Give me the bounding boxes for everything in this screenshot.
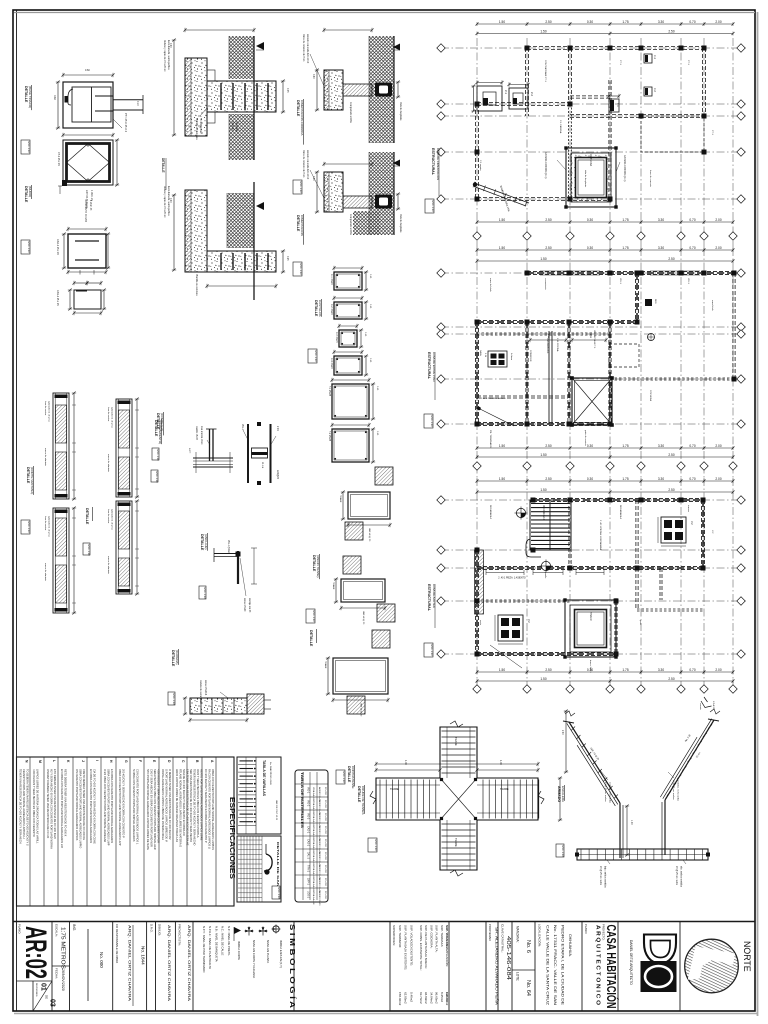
svg-text:aplanado int. de yeso: aplanado int. de yeso — [111, 509, 114, 531]
upper floor window pane symbol left — [498, 615, 523, 641]
svg-text:C-4 15x20: C-4 15x20 — [330, 358, 332, 369]
svg-text:2 #4: 2 #4 — [276, 426, 278, 431]
ground floor diagonal leader — [478, 408, 514, 426]
svg-text:N.P.A.Z.: NIVEL DE PLANTA ALTA: N.P.A.Z.: NIVEL DE PLANTA ALTA — [208, 926, 212, 969]
svg-text:NIVEL EN PLANTA: NIVEL EN PLANTA — [266, 940, 270, 963]
svg-text:armado con malla 6x6-10/10: armado con malla 6x6-10/10 — [306, 34, 309, 64]
svg-text:EN OBRA CON CEMENTO PORTLAND N: EN OBRA CON CEMENTO PORTLAND NORMAL AGRE… — [110, 769, 114, 843]
section rect T-1 25x35 — [332, 384, 369, 419]
svg-text:0.60: 0.60 — [85, 69, 90, 72]
svg-text:TABLA DE VARILLAS: TABLA DE VARILLAS — [262, 760, 266, 796]
ground floor interior walls — [525, 322, 527, 424]
svg-text:VIG-1: VIG-1 — [307, 787, 310, 794]
svg-text:2.00: 2.00 — [715, 668, 721, 672]
ground floor circle symbol — [648, 334, 655, 341]
dimension line row — [477, 447, 733, 449]
foundation footing detail Z-2 — [509, 88, 528, 109]
svg-text:CON CEMENTO PORTLAND NORMAL AG: CON CEMENTO PORTLAND NORMAL AGREGADOS LI… — [136, 769, 140, 845]
svg-text:ESC 1:20: ESC 1:20 — [374, 840, 378, 852]
ground floor window lines top wall — [540, 270, 600, 272]
svg-text:N.C.: NIVEL DE CALLE: N.C.: NIVEL DE CALLE — [221, 926, 225, 956]
svg-text:FC=200: FC=200 — [324, 813, 326, 822]
svg-text:C-1 15x20: C-1 15x20 — [330, 274, 332, 285]
dimension line row — [477, 23, 733, 25]
svg-text:muro de block: muro de block — [489, 278, 492, 293]
svg-text:3.30: 3.30 — [658, 477, 664, 481]
svg-text:RECAMARA 2: RECAMARA 2 — [542, 505, 545, 521]
svg-text:RECAMARA 2: RECAMARA 2 — [489, 505, 492, 520]
stair ramp diagonal bars — [665, 720, 714, 800]
foundation plan left grid diamonds — [437, 44, 445, 52]
svg-text:Plantilla de concreto: Plantilla de concreto — [195, 118, 198, 140]
svg-text:NCIA DE FC=200 KG/CM2 Y SERA H: NCIA DE FC=200 KG/CM2 Y SERA HECHO EN OB… — [182, 769, 186, 836]
DO logo letter D outline — [644, 935, 676, 964]
svg-text:cerramiento: cerramiento — [544, 278, 547, 290]
svg-text:2.00: 2.00 — [715, 218, 721, 222]
svg-text:COCHERA: COCHERA — [649, 390, 652, 401]
svg-text:A R Q U I T E C T O N I C O: A R Q U I T E C T O N I C O — [595, 925, 601, 1005]
stair ramp diagonal bars — [569, 722, 620, 803]
svg-text:alto, ambos sentidos: alto, ambos sentidos — [680, 866, 683, 888]
window section strip — [53, 393, 69, 499]
svg-text:armado con malla 6x6-10/10: armado con malla 6x6-10/10 — [306, 150, 309, 180]
svg-text:0.40: 0.40 — [312, 176, 314, 181]
dala section T - footing — [324, 70, 343, 110]
upper floor column squares — [531, 498, 536, 503]
section rect C-4 15x20 — [334, 356, 362, 375]
svg-text:CONCRETO FC=200: CONCRETO FC=200 — [84, 200, 86, 223]
detail column H with mid beam — [247, 424, 249, 483]
svg-text:No. 17311 FRACC. VALLE DE SAN: No. 17311 FRACC. VALLE DE SAN — [553, 925, 557, 1005]
upper floor interior dim ticks — [486, 572, 524, 574]
svg-text:1.75: 1.75 — [622, 20, 628, 24]
svg-text:DETALLE: DETALLE — [154, 420, 158, 437]
svg-text:1.50: 1.50 — [540, 29, 546, 33]
svg-text:2.50: 2.50 — [668, 677, 674, 681]
svg-text:VAR #4 @ 20: VAR #4 @ 20 — [368, 528, 371, 542]
cross beam center X and corner bars — [440, 778, 477, 820]
svg-text:TO DEBERA TENER UNA RESISTENCI: TO DEBERA TENER UNA RESISTENCIA DE FC=20… — [26, 769, 30, 846]
svg-text:DAL-1: DAL-1 — [307, 852, 310, 859]
svg-text:DE: DE — [45, 995, 49, 999]
upper floor interior walls — [568, 500, 570, 568]
stair ramp tick marks — [708, 724, 712, 728]
svg-text:tierra humeda, semin perfiles: tierra humeda, semin perfiles — [167, 40, 170, 70]
svg-text:ESC 1:20: ESC 1:20 — [27, 522, 31, 534]
svg-text:LOCALIZACIÓN:: LOCALIZACIÓN: — [538, 924, 543, 947]
svg-text:Z-1: Z-1 — [504, 90, 508, 94]
dala section T - dims and leaders — [316, 70, 318, 110]
svg-text:0.40: 0.40 — [312, 74, 314, 79]
svg-text:1.50: 1.50 — [499, 477, 505, 481]
svg-text:DETALLE: DETALLE — [314, 300, 318, 317]
svg-text:1/2 A 20: 1/2 A 20 — [712, 701, 715, 710]
upper floor main horizontal wall — [477, 566, 703, 568]
foundation plan dashed patio box — [641, 116, 704, 152]
svg-text:castillo 15x15: castillo 15x15 — [195, 426, 198, 441]
svg-text:VIG-3: VIG-3 — [307, 813, 310, 820]
svg-text:TABLA DE MATERIALES: TABLA DE MATERIALES — [300, 772, 304, 829]
svg-text:2.50: 2.50 — [545, 20, 551, 24]
svg-text:2.50: 2.50 — [668, 488, 674, 492]
foundation plan column black squares — [525, 46, 530, 51]
svg-text:1.00: 1.00 — [630, 820, 632, 825]
stair top small details — [701, 697, 712, 708]
svg-text:2.50: 2.50 — [668, 257, 674, 261]
svg-text:T-2 25x35: T-2 25x35 — [328, 431, 330, 442]
svg-text:FC=200: FC=200 — [324, 839, 326, 848]
svg-text:0.70: 0.70 — [689, 477, 695, 481]
svg-text:COMEDOR: COMEDOR — [529, 350, 531, 362]
upper floor exterior wall hatch — [475, 550, 484, 614]
svg-text:CONTRATRABE CT-1: CONTRATRABE CT-1 — [544, 60, 547, 82]
svg-text:RETO DEBERA TENER UNA RESISTEN: RETO DEBERA TENER UNA RESISTENCIA DE FC=… — [64, 769, 68, 837]
svg-text:D.R.O.: D.R.O. — [150, 924, 154, 933]
svg-text:PROYECTISTA:: PROYECTISTA: — [178, 924, 182, 946]
foundation section L - stem bottom — [207, 251, 276, 272]
svg-text:2.50: 2.50 — [668, 29, 674, 33]
tabla de varillas — [237, 757, 281, 834]
dala section L - slab stem hatched — [343, 196, 372, 208]
svg-text:marco de aluminio: marco de aluminio — [44, 563, 47, 582]
foundation footing detail Z-1 — [477, 86, 502, 111]
svg-text:ORMAL AGREGADOS LIMPIOS LIBRES: ORMAL AGREGADOS LIMPIOS LIBRES DE MATERI… — [161, 769, 165, 840]
stair ramp top break mark — [708, 719, 719, 721]
section rect C-1 15x20 — [334, 272, 362, 290]
svg-text:CM2 Y SERA HECHO EN OBRA CON C: CM2 Y SERA HECHO EN OBRA CON CEMENTO POR… — [150, 769, 154, 847]
svg-text:CIA DE FC=200 KG/CM2 Y SERA HE: CIA DE FC=200 KG/CM2 Y SERA HECHO EN OBR… — [93, 769, 97, 844]
svg-text:INDICA CORTE: INDICA CORTE — [237, 941, 241, 960]
window section strip — [116, 501, 132, 594]
svg-text:L: L — [52, 760, 56, 762]
svg-text:2.50: 2.50 — [668, 453, 674, 457]
svg-text:34.84m2: 34.84m2 — [429, 992, 433, 1004]
svg-text:1.50: 1.50 — [499, 444, 505, 448]
dala section L - earth hatch — [369, 152, 394, 235]
svg-text:0.70: 0.70 — [689, 218, 695, 222]
svg-text:2.50: 2.50 — [545, 668, 551, 672]
svg-text:ESC 1:20: ESC 1:20 — [155, 472, 159, 484]
svg-text:TRABE: TRABE — [339, 495, 342, 503]
svg-text:RA CON CEMENTO PORTLAND NORMAL: RA CON CEMENTO PORTLAND NORMAL AGREGADOS… — [208, 769, 212, 849]
svg-text:VIG-2: VIG-2 — [307, 800, 310, 807]
svg-text:RECAMARA 1: RECAMARA 1 — [546, 338, 549, 354]
cistern detail concentric — [566, 148, 616, 207]
svg-text:C-2 15x20: C-2 15x20 — [330, 304, 332, 315]
svg-text:TRABE: TRABE — [390, 787, 399, 791]
svg-text:TENER UNA RESISTENCIA DE FC=20: TENER UNA RESISTENCIA DE FC=200 KG/CM2 Y… — [19, 769, 23, 844]
svg-text:0.30: 0.30 — [587, 20, 593, 24]
svg-text:4 VAR. #3: 4 VAR. #3 — [89, 200, 92, 211]
ground floor stair shaft X square — [572, 378, 612, 425]
ground floor inner dims — [530, 339, 566, 341]
svg-text:DETALLE: DETALLE — [171, 650, 175, 667]
svg-text:2.00: 2.00 — [715, 477, 721, 481]
ramp 1 leg dimension — [626, 806, 628, 855]
svg-text:cadena de cerramiento: cadena de cerramiento — [199, 680, 202, 704]
svg-text:ESC 1:20: ESC 1:20 — [430, 416, 434, 428]
svg-text:01: 01 — [40, 983, 47, 991]
svg-text:SUP. PLANTA ALTA:: SUP. PLANTA ALTA: — [435, 925, 439, 952]
svg-text:marco de aluminio: marco de aluminio — [107, 454, 110, 473]
svg-text:sentidos, lecho arriba: sentidos, lecho arriba — [677, 780, 680, 802]
svg-text:CALLE VALLE DE LA SANTA CRUZ: CALLE VALLE DE LA SANTA CRUZ — [546, 925, 550, 1006]
upper floor plan grid lines — [476, 478, 478, 695]
svg-text:DIBUJO:: DIBUJO: — [158, 924, 162, 936]
svg-text:f'c=100kg/cm2: f'c=100kg/cm2 — [199, 118, 202, 134]
svg-text:No. 64: No. 64 — [525, 980, 531, 996]
svg-text:VER DETALLE T-1: VER DETALLE T-1 — [593, 330, 596, 349]
svg-text:SUP. CONS. EXISTENTE TOTAL:: SUP. CONS. EXISTENTE TOTAL: — [419, 925, 423, 971]
svg-text:REVISIONES:: REVISIONES: — [35, 983, 37, 997]
svg-text:J: J — [81, 760, 85, 762]
dimension line row — [477, 671, 733, 673]
title cell manzana / lote — [512, 969, 535, 971]
svg-text:FC=200: FC=200 — [324, 878, 326, 887]
detail slab-wall junction — [193, 457, 233, 459]
svg-text:SERA HECHO EN OBRA CON CEMENTO: SERA HECHO EN OBRA CON CEMENTO PORTLAND … — [153, 769, 157, 850]
svg-text:1.50: 1.50 — [540, 453, 546, 457]
svg-text:VAR #4 @ 20: VAR #4 @ 20 — [360, 703, 363, 717]
svg-text:No. 1844: No. 1844 — [141, 946, 146, 965]
section rect C-3 15x15 — [339, 330, 357, 347]
svg-text:ESC 1:20: ESC 1:20 — [342, 772, 346, 784]
ground floor interior mid wall — [548, 331, 550, 424]
ground floor plan left grid diamonds — [437, 269, 445, 277]
svg-text:2 .40 1 PIEZA. 1 ASIENTO: 2 .40 1 PIEZA. 1 ASIENTO — [498, 577, 526, 580]
svg-text:CT-1: CT-1 — [687, 60, 689, 66]
ground floor bath partition — [477, 395, 568, 397]
svg-text:CADENA CORRIDA (C-1): CADENA CORRIDA (C-1) — [544, 152, 547, 179]
stair base footing strip — [577, 849, 708, 860]
svg-text:0.35: 0.35 — [286, 88, 288, 93]
ground floor perimeter walls — [527, 271, 734, 273]
tabla de materiales — [295, 770, 328, 902]
foundation small mark C-2 — [644, 87, 652, 96]
svg-text:63.74m2: 63.74m2 — [419, 992, 423, 1004]
svg-text:SUP. PLANTA BAJA EXISTENTE:: SUP. PLANTA BAJA EXISTENTE: — [404, 925, 408, 970]
svg-text:firme de concreto: firme de concreto — [649, 170, 652, 188]
dimension line row — [477, 221, 733, 223]
svg-text:marco de aluminio: marco de aluminio — [107, 556, 110, 575]
title cell escala 1:75 metros — [52, 965, 70, 967]
ground floor column squares — [525, 271, 530, 276]
svg-text:losa maciza 10cm: losa maciza 10cm — [200, 426, 202, 444]
norte hatched circle — [685, 939, 739, 993]
svg-text:ESC 1:20: ESC 1:20 — [299, 182, 303, 194]
svg-text:NER UNA RESISTENCIA DE FC=200: NER UNA RESISTENCIA DE FC=200 KG/CM2 Y S… — [189, 769, 193, 842]
svg-text:losa de azotea: losa de azotea — [44, 516, 47, 531]
window section strip — [53, 508, 69, 613]
svg-text:tierra humeda, semin perfiles: tierra humeda, semin perfiles — [167, 186, 170, 216]
svg-text:ESTRUCTURAL: ESTRUCTURAL — [427, 352, 431, 380]
svg-text:2.00: 2.00 — [715, 444, 721, 448]
svg-text:1.50: 1.50 — [499, 218, 505, 222]
stair ramp tick marks — [571, 726, 575, 730]
svg-text:RECAMARA 3: RECAMARA 3 — [619, 505, 622, 520]
svg-text:O EN OBRA CON CEMENTO PORTLAND: O EN OBRA CON CEMENTO PORTLAND NORMAL AG… — [103, 769, 107, 842]
svg-text:remate: remate — [699, 703, 702, 711]
svg-text:405-146-084: 405-146-084 — [505, 936, 511, 980]
svg-text:VIG-1: VIG-1 — [241, 424, 243, 431]
svg-text:#3 @ 25 cm. ambos: #3 @ 25 cm. ambos — [672, 780, 674, 801]
dimension line row — [477, 480, 733, 482]
especificaciones table frame — [17, 757, 235, 906]
svg-text:ESC 1:20: ESC 1:20 — [172, 694, 176, 706]
svg-text:CADENA CORRIDA (C-1): CADENA CORRIDA (C-1) — [623, 155, 626, 182]
svg-text:CAS-1: CAS-1 — [307, 839, 310, 847]
svg-text:200 KG/CM2 Y SERA HECHO EN OBR: 200 KG/CM2 Y SERA HECHO EN OBRA CON CEME… — [122, 769, 126, 838]
svg-text:26/NOV/2020: 26/NOV/2020 — [61, 969, 65, 991]
svg-text:T-1 25x35: T-1 25x35 — [328, 386, 330, 397]
svg-text:62.85m2: 62.85m2 — [404, 992, 408, 1004]
foundation plan left room walls — [477, 102, 570, 104]
svg-text:1.50: 1.50 — [540, 488, 546, 492]
ground floor plan bottom grid diamonds — [473, 462, 481, 470]
svg-text:CAD-1 15 x 20: CAD-1 15 x 20 — [56, 239, 59, 255]
svg-text:OBRA CON CEMENTO PORTLAND NORM: OBRA CON CEMENTO PORTLAND NORMAL AGREGAD… — [107, 769, 111, 846]
svg-text:FC=200: FC=200 — [324, 826, 326, 835]
svg-text:DETALLE: DETALLE — [24, 186, 28, 203]
svg-text:2.60: 2.60 — [561, 730, 563, 735]
ground floor plan right grid diamonds — [737, 269, 745, 277]
upper floor eje circle markers — [516, 508, 525, 517]
svg-text:DETALLE: DETALLE — [296, 100, 300, 117]
svg-text:ESC 1:20: ESC 1:20 — [299, 264, 303, 276]
svg-text:N.P.T.: NIVEL DE PISO TERMIN: N.P.T.: NIVEL DE PISO TERMINADO — [202, 926, 206, 973]
dala section T - earth hatch — [369, 36, 394, 143]
svg-text:REG: REG — [654, 299, 656, 304]
svg-text:0.70: 0.70 — [689, 444, 695, 448]
svg-text:ONCRETO DEBERA TENER UNA RESIS: ONCRETO DEBERA TENER UNA RESISTENCIA DE … — [46, 769, 50, 839]
svg-text:1.50: 1.50 — [499, 668, 505, 672]
svg-text:Z-2: Z-2 — [530, 92, 534, 96]
dala section L - bench triangle — [393, 160, 400, 167]
svg-text:ETO DEBERA TENER UNA RESISTENC: ETO DEBERA TENER UNA RESISTENCIA DE FC=2… — [53, 769, 57, 839]
svg-text:ARMEX 15x20: ARMEX 15x20 — [318, 891, 321, 906]
svg-text:AR:02: AR:02 — [19, 926, 52, 979]
foundation section L - dims — [173, 195, 175, 270]
svg-text:ARQ. DANIEL ORTIZ CHAVIRA: ARQ. DANIEL ORTIZ CHAVIRA — [128, 925, 133, 1001]
dala section T - black dala block — [375, 83, 392, 97]
detail chain beam long — [190, 698, 247, 714]
svg-text:TRABE: TRABE — [324, 661, 327, 669]
svg-text:ESC 1:20: ESC 1:20 — [27, 242, 31, 254]
svg-text:ESC 1:20: ESC 1:20 — [203, 588, 207, 600]
svg-text:#3 @ 25 cm. lecho: #3 @ 25 cm. lecho — [675, 866, 677, 886]
svg-text:CT-1: CT-1 — [711, 130, 713, 136]
joint detail 1 — [348, 492, 390, 519]
svg-text:03: 03 — [49, 999, 56, 1007]
svg-text:Firme de concreto de 8 cm: Firme de concreto de 8 cm — [302, 150, 305, 177]
svg-text:DETALLE: DETALLE — [85, 508, 89, 525]
foundation plan interior wall x610 — [608, 80, 610, 199]
svg-text:OBRA CON CEMENTO PORTLAND NORM: OBRA CON CEMENTO PORTLAND NORMAL AGREGAD… — [79, 769, 83, 848]
foundation plan perimeter walls — [527, 46, 704, 48]
dala section L - black dala block — [375, 195, 392, 209]
svg-text:ESC 1:20: ESC 1:20 — [312, 611, 316, 623]
cross beam stirrup rungs horizontal arm — [379, 780, 381, 819]
svg-text:TRA-1: TRA-1 — [307, 865, 310, 873]
svg-text:0.30: 0.30 — [587, 477, 593, 481]
svg-text:2.50: 2.50 — [545, 477, 551, 481]
svg-text:C-3 15x15: C-3 15x15 — [335, 332, 337, 343]
svg-text:SUP. TERRAZA:: SUP. TERRAZA: — [440, 925, 444, 947]
svg-text:0.70: 0.70 — [689, 20, 695, 24]
svg-text:pasillo: pasillo — [544, 572, 546, 579]
svg-text:TINACO: TINACO — [589, 612, 592, 621]
svg-text:0.70: 0.70 — [689, 246, 695, 250]
svg-text:tinaco 1100 L: tinaco 1100 L — [589, 660, 592, 674]
svg-text:0.25: 0.25 — [286, 256, 288, 261]
foundation section L - earth hatch — [227, 193, 254, 248]
title strip top line — [13, 921, 755, 923]
svg-text:ING.: ING. — [72, 924, 76, 931]
svg-text:ESTRUCTURAL: ESTRUCTURAL — [427, 584, 431, 612]
svg-text:1:75 METROS: 1:75 METROS — [60, 927, 66, 970]
ground floor window pane symbol living — [488, 351, 507, 367]
svg-text:SUPERFICIES:: SUPERFICIES: — [392, 925, 396, 946]
svg-text:losa de azotea: losa de azotea — [44, 401, 47, 416]
cross beam inner edge lines — [446, 727, 448, 778]
svg-text:2 .40 1 PIEZAS 1 RECAMARA: 2 .40 1 PIEZAS 1 RECAMARA — [599, 520, 602, 550]
svg-text:CLAVE CATASTRAL:: CLAVE CATASTRAL: — [501, 924, 505, 953]
symbol nivel corte cross — [245, 930, 254, 932]
svg-text:No. 6: No. 6 — [525, 940, 531, 953]
svg-text:DETALLE: DETALLE — [296, 215, 300, 232]
svg-text:2.50: 2.50 — [545, 444, 551, 448]
svg-text:N.P.: NIVEL DE PRETIL: N.P.: NIVEL DE PRETIL — [227, 926, 231, 956]
svg-text:VAR 3/8 0.557 12.00: VAR 3/8 0.557 12.00 — [275, 800, 278, 821]
svg-text:0.30: 0.30 — [587, 246, 593, 250]
svg-text:0.60: 0.60 — [53, 95, 56, 100]
svg-text:FC=200: FC=200 — [324, 800, 326, 809]
DO logo letter O on black square — [641, 961, 677, 992]
svg-text:LOTE:: LOTE: — [516, 972, 520, 981]
svg-text:1.00: 1.00 — [499, 760, 502, 765]
svg-text:N OBRA CON CEMENTO PORTLAND NO: N OBRA CON CEMENTO PORTLAND NORMAL AGREG… — [132, 769, 136, 842]
svg-text:2.60 1 PIEZAS 1 BAÑOS: 2.60 1 PIEZAS 1 BAÑOS — [481, 397, 506, 400]
svg-text:P.B. TERMINADO: P.B. TERMINADO — [489, 430, 492, 448]
svg-text:/CM2 Y SERA HECHO EN OBRA CON: /CM2 Y SERA HECHO EN OBRA CON CEMENTO PO… — [196, 769, 200, 838]
svg-text:LOSA DE ENTRE PISO: LOSA DE ENTRE PISO — [432, 352, 436, 383]
svg-text:SUP. DE PLANTA BAJA NUEVA:: SUP. DE PLANTA BAJA NUEVA: — [424, 925, 428, 969]
svg-text:VIG-1: VIG-1 — [687, 278, 689, 284]
svg-text:1.75: 1.75 — [622, 218, 628, 222]
dala section L - dims and leaders — [316, 172, 318, 212]
svg-text:OBRA CON CEMENTO PORTLAND NORM: OBRA CON CEMENTO PORTLAND NORMAL AGREGAD… — [211, 769, 215, 850]
svg-text:Dala de: Dala de — [231, 122, 233, 131]
svg-text:#3 @ 25 cm. lecho: #3 @ 25 cm. lecho — [599, 866, 601, 886]
svg-text:1.75: 1.75 — [622, 444, 628, 448]
cross beam stirrup rungs vertical arm — [442, 730, 476, 732]
svg-text:2.00: 2.00 — [715, 20, 721, 24]
svg-text:3.30: 3.30 — [658, 668, 664, 672]
svg-text:PL 1/4: PL 1/4 — [261, 462, 263, 469]
svg-text:Z-1 zapata: Z-1 zapata — [479, 160, 482, 171]
svg-text:2.50: 2.50 — [545, 218, 551, 222]
detail wall base L — [237, 551, 239, 584]
svg-text:DETALLE: DETALLE — [357, 786, 361, 803]
svg-text:aplanado int. de yeso: aplanado int. de yeso — [48, 516, 51, 538]
svg-text:ESC 1:20: ESC 1:20 — [27, 142, 31, 154]
svg-text:O PORTLAND NORMAL AGREGADOS LI: O PORTLAND NORMAL AGREGADOS LIMPIOS LIBR… — [165, 769, 169, 842]
svg-text:FECHA:: FECHA: — [55, 968, 59, 979]
svg-text:ESC 1:20: ESC 1:20 — [561, 846, 565, 858]
dimension line row — [477, 249, 733, 251]
foundation small mark C-1 — [644, 54, 652, 63]
dimension line row — [477, 680, 733, 682]
